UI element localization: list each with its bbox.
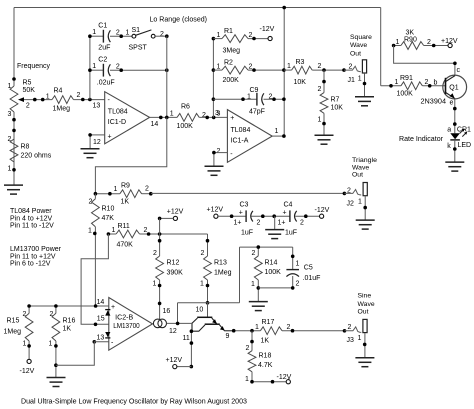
svg-text:13: 13 — [93, 103, 101, 110]
svg-text:10K: 10K — [331, 105, 344, 112]
svg-text:470K: 470K — [117, 242, 134, 249]
svg-text:R91: R91 — [400, 75, 413, 82]
ground — [205, 166, 224, 175]
svg-text:Out: Out — [352, 172, 363, 179]
resistor R4 — [46, 88, 105, 113]
svg-text:Pin 4 to +12V: Pin 4 to +12V — [10, 215, 53, 222]
svg-text:Rate Indicator: Rate Indicator — [399, 136, 444, 143]
op-amp IC1-A — [217, 110, 279, 163]
svg-text:C4: C4 — [284, 202, 293, 209]
svg-text:J1: J1 — [348, 77, 356, 84]
svg-text:1K: 1K — [121, 199, 130, 206]
resistor R14 — [251, 245, 281, 301]
svg-text:1K: 1K — [63, 326, 72, 333]
svg-text:2N3904: 2N3904 — [421, 99, 447, 106]
svg-text:1: 1 — [114, 186, 118, 193]
svg-text:1: 1 — [217, 32, 221, 39]
svg-text:+: + — [283, 209, 287, 216]
svg-text:3: 3 — [217, 110, 221, 117]
svg-text:100K: 100K — [397, 91, 414, 98]
svg-text:10: 10 — [196, 307, 204, 314]
resistor R10 — [88, 194, 114, 306]
LED CR1 — [447, 126, 471, 150]
svg-text:C5: C5 — [304, 264, 313, 271]
svg-text:2: 2 — [348, 324, 352, 331]
svg-text:C2: C2 — [98, 56, 107, 63]
svg-text:.02uF: .02uF — [97, 80, 115, 87]
capacitor C9 — [213, 87, 285, 116]
svg-text:+12V: +12V — [167, 209, 184, 216]
svg-text:R7: R7 — [331, 97, 340, 104]
svg-text:Wave: Wave — [358, 301, 375, 308]
svg-text:220 ohms: 220 ohms — [21, 152, 52, 159]
svg-text:R3: R3 — [296, 59, 305, 66]
wire triangle wave to J2 — [151, 192, 346, 196]
svg-text:J2: J2 — [347, 201, 355, 208]
svg-text:2: 2 — [145, 186, 149, 193]
svg-text:k: k — [447, 143, 451, 150]
svg-text:-12V: -12V — [315, 207, 330, 214]
transistor Q1 — [421, 67, 467, 107]
capacitor C3 — [234, 202, 290, 237]
label Triangle Wave Out — [352, 157, 377, 179]
svg-text:2: 2 — [249, 32, 253, 39]
svg-text:100K: 100K — [265, 269, 282, 276]
wire top feedback bus — [14, 7, 381, 9]
svg-text:2: 2 — [318, 86, 322, 93]
wire S1 to feedback node — [155, 34, 169, 38]
svg-text:3: 3 — [8, 111, 12, 118]
svg-text:R12: R12 — [167, 259, 180, 266]
svg-text:TL084: TL084 — [231, 127, 251, 134]
svg-text:R1: R1 — [224, 28, 233, 35]
svg-text:SPST: SPST — [129, 45, 148, 52]
svg-text:3K: 3K — [406, 29, 415, 36]
svg-text:R2: R2 — [224, 59, 233, 66]
svg-text:1: 1 — [245, 376, 249, 383]
power +12V terminal — [441, 38, 458, 48]
resistor R91 — [381, 75, 446, 98]
svg-text:R15: R15 — [7, 318, 20, 325]
svg-text:Sine: Sine — [358, 292, 372, 299]
wire pin 14 row — [29, 304, 109, 343]
resistor R16 — [49, 304, 76, 377]
wire feedback vertical — [166, 36, 168, 117]
svg-text:200K: 200K — [223, 77, 240, 84]
svg-text:2: 2 — [217, 148, 221, 155]
svg-text:2: 2 — [287, 324, 291, 331]
svg-text:1+: 1+ — [234, 220, 242, 227]
wire right vertical to R91 — [380, 8, 382, 86]
capacitor C1 — [88, 22, 132, 51]
wire R14 C5 top row — [240, 246, 293, 248]
resistor R12 — [153, 218, 184, 319]
svg-text:C3: C3 — [240, 202, 249, 209]
svg-text:9: 9 — [226, 333, 230, 340]
svg-text:J3: J3 — [347, 337, 355, 344]
OTA IC2-B — [97, 298, 177, 351]
wire output node down to R9 R10 — [95, 117, 166, 193]
svg-text:+: + — [230, 115, 234, 122]
wire pin 11 to +12V — [177, 329, 193, 368]
svg-text:1: 1 — [251, 281, 255, 288]
svg-text:2: 2 — [349, 64, 353, 71]
svg-text:2: 2 — [116, 63, 120, 70]
svg-text:LM13700 Power: LM13700 Power — [10, 246, 62, 253]
svg-text:+12V: +12V — [207, 206, 224, 213]
resistor R15 — [4, 304, 34, 359]
svg-text:+: + — [111, 304, 115, 311]
wire IC1-D pin 12 to ground — [88, 133, 104, 149]
wire square-wave vertical — [283, 8, 285, 137]
jack J3 — [345, 319, 368, 357]
svg-text:2: 2 — [257, 219, 261, 226]
svg-text:1Meg: 1Meg — [53, 105, 71, 112]
node square wave top — [282, 6, 286, 10]
svg-text:-12V: -12V — [260, 26, 275, 33]
svg-text:1Meg: 1Meg — [214, 269, 232, 276]
power -12V terminal — [260, 26, 275, 40]
svg-text:2: 2 — [116, 29, 120, 36]
resistor R3 — [284, 59, 346, 86]
svg-text:S1: S1 — [132, 27, 141, 34]
svg-text:Q1: Q1 — [449, 85, 458, 92]
svg-text:1: 1 — [88, 228, 92, 235]
svg-text:1: 1 — [92, 63, 96, 70]
svg-text:2: 2 — [160, 31, 164, 38]
resistor R7 — [318, 70, 344, 135]
svg-text:2: 2 — [144, 227, 148, 234]
power +12V terminal — [158, 209, 184, 221]
svg-text:47pF: 47pF — [249, 109, 265, 116]
resistor R8 — [8, 118, 52, 172]
wire R14 C5 bottom row — [258, 287, 292, 289]
svg-text:IC1-A: IC1-A — [231, 137, 249, 144]
ground — [47, 378, 66, 387]
svg-text:2: 2 — [89, 199, 93, 206]
svg-text:2: 2 — [425, 79, 429, 86]
power -12V terminal — [20, 359, 35, 375]
svg-text:1: 1 — [247, 93, 251, 100]
svg-text:1: 1 — [23, 340, 27, 347]
label Rate Indicator — [399, 136, 444, 143]
svg-text:2: 2 — [201, 250, 205, 257]
svg-text:11: 11 — [183, 335, 190, 342]
capacitor C5 — [286, 247, 320, 290]
svg-text:50K: 50K — [23, 87, 36, 94]
svg-text:b: b — [434, 79, 438, 86]
ground — [249, 302, 268, 311]
ground — [356, 220, 375, 229]
svg-text:10K: 10K — [294, 79, 307, 86]
svg-text:Pin 6 to -12V: Pin 6 to -12V — [10, 261, 51, 268]
svg-text:R90: R90 — [404, 36, 417, 43]
svg-text:+: + — [239, 209, 243, 216]
ground — [355, 358, 374, 367]
svg-text:Out: Out — [350, 51, 361, 58]
svg-text:1: 1 — [170, 111, 174, 118]
svg-text:2: 2 — [252, 250, 256, 257]
svg-text:2uF: 2uF — [98, 45, 110, 52]
svg-text:R9: R9 — [121, 183, 130, 190]
resistor R13 — [200, 234, 232, 317]
jack J1 — [344, 60, 367, 97]
svg-text:Pin 11 to +12V: Pin 11 to +12V — [10, 253, 56, 260]
svg-text:R10: R10 — [102, 206, 115, 213]
ground — [445, 162, 464, 171]
svg-text:R8: R8 — [21, 144, 30, 151]
wire R90 to Q1 collector — [394, 46, 457, 76]
svg-text:1: 1 — [396, 39, 400, 46]
svg-text:R14: R14 — [265, 259, 278, 266]
svg-text:1: 1 — [112, 227, 116, 234]
svg-text:+12V: +12V — [441, 38, 458, 45]
svg-text:12: 12 — [169, 328, 177, 335]
capacitor C2 — [88, 56, 169, 86]
wire IC1-D output — [150, 116, 177, 120]
wire pin 13 path — [56, 342, 109, 365]
svg-text:14: 14 — [151, 121, 159, 128]
label LM13700 power note — [10, 246, 62, 268]
svg-text:1: 1 — [126, 29, 130, 36]
svg-text:100K: 100K — [177, 123, 194, 130]
resistor R11 — [107, 223, 208, 249]
resistor R90 — [392, 29, 448, 49]
svg-text:Wave: Wave — [352, 164, 369, 171]
svg-text:15: 15 — [97, 316, 105, 323]
op-amp IC1-D — [93, 92, 159, 146]
svg-text:2: 2 — [318, 63, 322, 70]
svg-text:16: 16 — [163, 308, 171, 315]
svg-text:2: 2 — [202, 112, 206, 119]
svg-text:1: 1 — [153, 280, 157, 287]
svg-text:IC2-B: IC2-B — [115, 315, 133, 322]
svg-text:1: 1 — [287, 63, 291, 70]
svg-text:IC1-D: IC1-D — [108, 119, 126, 126]
svg-text:2: 2 — [50, 311, 54, 318]
svg-text:c: c — [457, 67, 461, 74]
resistor R9 — [94, 183, 153, 206]
svg-text:2: 2 — [8, 136, 12, 143]
potentiometer R5 — [8, 77, 53, 118]
svg-text:C1: C1 — [98, 22, 107, 29]
label title — [21, 399, 247, 406]
wire R1 R2 input vertical — [212, 37, 216, 118]
wire R11 to pin 15 path — [81, 234, 109, 326]
resistor R6 — [170, 104, 228, 130]
svg-text:1: 1 — [92, 29, 96, 36]
svg-text:1: 1 — [46, 93, 50, 100]
darlington buffer Q int — [183, 303, 234, 342]
resistor R1 — [213, 28, 268, 54]
jack J2 — [344, 183, 367, 221]
ground — [265, 230, 284, 239]
svg-text:1: 1 — [8, 165, 12, 172]
svg-text:1: 1 — [217, 64, 221, 71]
svg-text:e: e — [450, 100, 454, 107]
svg-text:TL084 Power: TL084 Power — [10, 208, 52, 215]
svg-text:1: 1 — [358, 335, 362, 342]
svg-text:2: 2 — [296, 280, 300, 287]
svg-text:R4: R4 — [54, 88, 63, 95]
svg-text:2: 2 — [23, 311, 27, 318]
svg-text:1: 1 — [8, 83, 12, 90]
svg-text:Out: Out — [358, 308, 369, 315]
svg-text:R17: R17 — [262, 319, 275, 326]
svg-text:a: a — [447, 127, 451, 134]
svg-text:CR1: CR1 — [457, 126, 471, 133]
svg-text:R6: R6 — [181, 104, 190, 111]
svg-text:1: 1 — [255, 324, 259, 331]
svg-text:2: 2 — [26, 102, 30, 109]
svg-text:TL084: TL084 — [108, 108, 128, 115]
wire LED cathode to ground — [453, 140, 457, 162]
svg-text:4.7K: 4.7K — [258, 362, 273, 369]
wire IC1-A output — [272, 134, 286, 138]
svg-text:LM13700: LM13700 — [113, 323, 140, 330]
label Lo Range closed — [150, 16, 208, 23]
label Square Wave Out — [350, 34, 372, 58]
svg-text:R11: R11 — [118, 223, 130, 230]
wire R5 bottom to ground — [13, 112, 15, 185]
svg-text:1: 1 — [296, 261, 300, 268]
resistor R17 — [225, 319, 347, 345]
label Sine Wave Out — [358, 292, 375, 315]
svg-text:R16: R16 — [63, 318, 76, 325]
power +12V terminal — [207, 206, 247, 218]
label Frequency — [17, 63, 50, 70]
power +12V terminal — [166, 357, 183, 369]
svg-text:1: 1 — [318, 117, 322, 124]
svg-text:+: + — [108, 134, 112, 141]
wire left vertical to R5 — [13, 8, 15, 87]
svg-text:R18: R18 — [259, 353, 272, 360]
ground — [355, 97, 374, 106]
svg-text:1: 1 — [49, 340, 53, 347]
svg-text:LED: LED — [458, 142, 472, 149]
svg-text:1uF: 1uF — [241, 229, 253, 236]
svg-text:-12V: -12V — [20, 368, 35, 375]
wire C1 C2 left vertical — [89, 36, 91, 99]
label TL084 power note — [10, 208, 54, 230]
svg-text:1K: 1K — [261, 338, 270, 345]
svg-text:Wave: Wave — [350, 42, 367, 49]
svg-text:1: 1 — [200, 280, 204, 287]
svg-text:2: 2 — [246, 345, 250, 352]
svg-text:R5: R5 — [23, 80, 32, 87]
svg-text:Lo Range (closed): Lo Range (closed) — [150, 16, 208, 23]
wire bubble to pin 12 node — [167, 322, 193, 326]
svg-text:Triangle: Triangle — [352, 157, 377, 164]
resistor R2 — [213, 59, 285, 84]
svg-text:Square: Square — [350, 34, 372, 41]
wire C3 C4 midpoint to ground — [274, 216, 276, 229]
svg-text:1: 1 — [395, 79, 399, 86]
switch S1 — [126, 27, 165, 52]
svg-text:12: 12 — [93, 139, 101, 146]
svg-text:1: 1 — [358, 75, 362, 82]
capacitor C4 — [278, 202, 320, 237]
wire pin 10 row — [178, 247, 240, 323]
wire IC1-A pin 2 to ground — [212, 151, 227, 167]
svg-text:1uF: 1uF — [285, 229, 297, 236]
svg-text:1: 1 — [275, 128, 279, 135]
svg-text:Pin 11 to -12V: Pin 11 to -12V — [10, 223, 54, 230]
power -12V terminal — [315, 207, 330, 218]
wire Q1 emitter to LED — [453, 99, 457, 133]
svg-text:-12V: -12V — [277, 374, 292, 381]
svg-text:47K: 47K — [102, 215, 115, 222]
svg-text:Dual Ultra-Simple Low Frequenc: Dual Ultra-Simple Low Frequency Oscillat… — [21, 399, 247, 406]
svg-text:+12V: +12V — [166, 357, 183, 364]
ground — [4, 185, 23, 194]
ground — [315, 135, 334, 144]
svg-text:2: 2 — [427, 39, 431, 46]
svg-text:2: 2 — [77, 92, 81, 99]
ground — [81, 149, 100, 158]
resistor R18 — [245, 331, 286, 384]
svg-text:R13: R13 — [214, 259, 227, 266]
svg-text:2: 2 — [347, 187, 351, 194]
svg-text:.01uF: .01uF — [303, 275, 321, 282]
svg-text:2: 2 — [249, 64, 253, 71]
svg-text:2: 2 — [153, 250, 157, 257]
svg-text:390K: 390K — [167, 269, 184, 276]
power -12V terminal — [277, 374, 292, 384]
svg-text:13: 13 — [97, 335, 105, 342]
svg-text:1Meg: 1Meg — [4, 329, 22, 336]
svg-text:2: 2 — [300, 219, 304, 226]
svg-text:Frequency: Frequency — [17, 63, 50, 70]
svg-text:14: 14 — [97, 299, 105, 306]
svg-text:2: 2 — [269, 93, 273, 100]
svg-text:3Meg: 3Meg — [223, 47, 241, 54]
svg-text:1: 1 — [358, 199, 362, 206]
svg-text:1+: 1+ — [278, 220, 286, 227]
